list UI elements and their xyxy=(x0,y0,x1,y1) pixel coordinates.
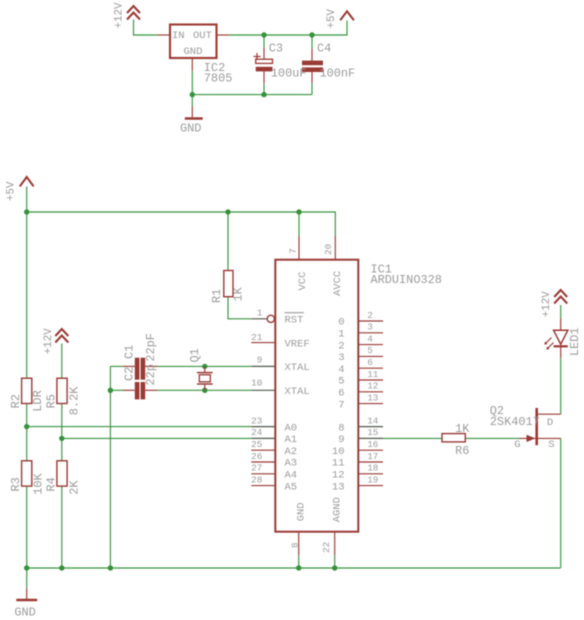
svg-text:5: 5 xyxy=(367,345,373,356)
svg-text:C4: C4 xyxy=(317,42,331,56)
svg-text:23: 23 xyxy=(251,415,262,426)
svg-text:7: 7 xyxy=(288,248,299,254)
svg-text:S: S xyxy=(548,439,554,451)
svg-text:0: 0 xyxy=(338,317,344,329)
svg-text:21: 21 xyxy=(251,332,263,343)
svg-text:A4: A4 xyxy=(285,470,298,482)
svg-text:+12V: +12V xyxy=(43,328,55,354)
svg-text:26: 26 xyxy=(251,451,262,462)
svg-text:19: 19 xyxy=(367,474,378,485)
svg-text:8: 8 xyxy=(289,542,300,548)
svg-text:22p: 22p xyxy=(144,364,158,385)
svg-text:+5V: +5V xyxy=(6,181,18,201)
svg-text:28: 28 xyxy=(251,474,262,485)
svg-text:GND: GND xyxy=(14,606,35,620)
svg-text:12: 12 xyxy=(332,470,345,482)
svg-text:R3: R3 xyxy=(9,477,23,491)
svg-text:13: 13 xyxy=(367,392,378,403)
svg-text:6: 6 xyxy=(338,388,344,400)
svg-text:4: 4 xyxy=(338,364,344,376)
svg-text:VREF: VREF xyxy=(285,338,310,350)
svg-text:13: 13 xyxy=(332,481,345,493)
svg-text:VCC: VCC xyxy=(297,272,309,291)
svg-text:XTAL: XTAL xyxy=(285,362,310,374)
svg-text:10: 10 xyxy=(332,446,345,458)
svg-text:D: D xyxy=(547,417,553,429)
svg-text:GND: GND xyxy=(180,121,201,135)
svg-text:A0: A0 xyxy=(285,422,298,434)
svg-text:9: 9 xyxy=(338,434,344,446)
svg-text:12: 12 xyxy=(367,381,378,392)
svg-text:10: 10 xyxy=(251,378,262,389)
svg-text:9: 9 xyxy=(257,354,263,365)
svg-text:R6: R6 xyxy=(455,444,469,458)
svg-text:ARDUINO328: ARDUINO328 xyxy=(371,273,442,287)
svg-text:GND: GND xyxy=(295,502,307,521)
svg-text:+12V: +12V xyxy=(541,291,553,317)
svg-text:R4: R4 xyxy=(44,477,58,491)
svg-text:A3: A3 xyxy=(285,458,298,470)
svg-text:20: 20 xyxy=(323,244,334,255)
svg-text:C3: C3 xyxy=(269,42,283,56)
svg-text:100uF: 100uF xyxy=(271,67,307,81)
svg-text:AGND: AGND xyxy=(331,497,343,522)
svg-text:4: 4 xyxy=(367,333,373,344)
svg-text:24: 24 xyxy=(251,427,263,438)
svg-text:A5: A5 xyxy=(285,481,298,493)
svg-text:1K: 1K xyxy=(232,286,246,301)
svg-text:100nF: 100nF xyxy=(320,67,356,81)
svg-text:R1: R1 xyxy=(210,289,224,303)
svg-text:22: 22 xyxy=(321,542,332,553)
svg-text:GND: GND xyxy=(184,46,203,58)
svg-text:LED1: LED1 xyxy=(568,327,582,356)
svg-text:2: 2 xyxy=(338,340,344,352)
svg-text:8.2K: 8.2K xyxy=(68,386,82,415)
svg-text:25: 25 xyxy=(251,439,262,450)
svg-text:2: 2 xyxy=(367,310,373,321)
svg-text:+5V: +5V xyxy=(326,9,338,29)
svg-text:27: 27 xyxy=(251,463,262,474)
svg-text:Q1: Q1 xyxy=(188,348,202,362)
svg-text:7: 7 xyxy=(338,399,344,411)
svg-text:6: 6 xyxy=(367,357,373,368)
svg-text:17: 17 xyxy=(367,451,378,462)
svg-text:3: 3 xyxy=(338,352,344,364)
svg-text:XTAL: XTAL xyxy=(285,386,310,398)
svg-text:14: 14 xyxy=(367,415,379,426)
svg-text:11: 11 xyxy=(367,369,379,380)
svg-text:22pF: 22pF xyxy=(144,333,158,362)
svg-text:1: 1 xyxy=(257,308,263,319)
svg-text:R2: R2 xyxy=(9,394,23,408)
svg-text:11: 11 xyxy=(332,458,345,470)
svg-text:18: 18 xyxy=(367,463,378,474)
svg-text:A2: A2 xyxy=(285,446,298,458)
svg-text:3: 3 xyxy=(367,322,373,333)
svg-text:+12V: +12V xyxy=(114,2,126,28)
svg-text:10K: 10K xyxy=(32,473,46,495)
svg-text:OUT: OUT xyxy=(193,30,212,42)
svg-text:C2: C2 xyxy=(123,367,137,381)
svg-text:5: 5 xyxy=(338,376,344,388)
svg-text:IN: IN xyxy=(172,30,185,42)
svg-text:2K: 2K xyxy=(68,480,82,495)
svg-text:R5: R5 xyxy=(44,394,58,408)
svg-text:LDR: LDR xyxy=(31,390,45,411)
svg-text:1: 1 xyxy=(338,329,344,341)
svg-text:AVCC: AVCC xyxy=(332,271,344,296)
svg-text:1K: 1K xyxy=(455,422,470,436)
svg-text:A1: A1 xyxy=(285,434,298,446)
svg-text:7805: 7805 xyxy=(204,72,233,86)
svg-text:2SK4017: 2SK4017 xyxy=(490,415,540,429)
svg-text:C1: C1 xyxy=(123,345,137,359)
svg-text:8: 8 xyxy=(338,422,344,434)
svg-text:RST: RST xyxy=(285,315,304,327)
svg-text:G: G xyxy=(514,439,520,451)
svg-text:16: 16 xyxy=(367,439,378,450)
svg-text:15: 15 xyxy=(367,427,378,438)
